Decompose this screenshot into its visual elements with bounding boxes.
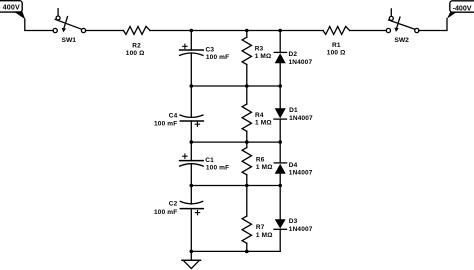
rung4 wire <box>191 185 280 187</box>
wire SW1 to R2 <box>86 30 124 32</box>
svg-text:SW1: SW1 <box>62 37 77 44</box>
resistor R2 <box>123 26 150 34</box>
node +400V flag <box>0 1 25 20</box>
D1 labels <box>289 107 313 122</box>
diode bus: wire rung3 down to D4 <box>279 142 281 163</box>
wire C4 to rung3 <box>190 121 192 142</box>
left bus: wire rung2 down to C4 <box>190 86 192 117</box>
rung2 junction dots <box>190 84 283 88</box>
wire R6 to rung4 <box>246 175 248 186</box>
svg-text:D2: D2 <box>289 51 298 58</box>
svg-text:-400V: -400V <box>453 4 472 12</box>
svg-text:R4: R4 <box>255 112 264 119</box>
svg-text:1N4007: 1N4007 <box>289 115 313 122</box>
svg-text:R3: R3 <box>255 45 264 52</box>
wire R7 to bottom rung <box>246 243 248 251</box>
node A junction dot <box>190 29 194 33</box>
svg-text:1 MΩ: 1 MΩ <box>256 232 273 239</box>
resistor R1 <box>323 26 350 34</box>
diode bus: wire rung2 down to D1 <box>279 86 281 108</box>
wire to ground <box>190 251 192 260</box>
wire SW2 to -400V flag <box>419 19 447 31</box>
middle bus: wire rung4 down to R7 <box>246 186 248 217</box>
C4 labels <box>154 112 178 127</box>
diode D2 <box>274 52 286 63</box>
svg-text:D1: D1 <box>289 107 298 114</box>
C3 labels <box>206 46 230 61</box>
rung3 wire <box>191 141 280 143</box>
diode D3 <box>274 219 287 229</box>
svg-text:100 mF: 100 mF <box>206 165 229 172</box>
capacitor C3 <box>180 44 204 55</box>
wire D1 to rung3 <box>279 119 281 142</box>
wire R1 to SW2 <box>350 30 387 32</box>
svg-text:100 mF: 100 mF <box>206 54 229 61</box>
resistor R7 <box>242 216 251 243</box>
node B junction dot <box>245 29 249 33</box>
svg-text:100 mF: 100 mF <box>154 209 177 216</box>
svg-text:1N4007: 1N4007 <box>289 226 313 233</box>
rung2 wire <box>191 85 280 87</box>
R3 labels <box>255 45 272 60</box>
svg-text:R2: R2 <box>132 43 141 50</box>
diode bus: wire rung4 down to D3 <box>279 186 281 220</box>
wire D2 to rung2 <box>279 63 281 86</box>
node C junction dot <box>278 29 282 33</box>
left bus: wire rung3 down to C1 <box>190 142 192 161</box>
C1 labels <box>205 157 229 172</box>
middle bus: wire node B down to R3 <box>246 31 248 38</box>
svg-text:1 MΩ: 1 MΩ <box>255 53 272 60</box>
svg-text:1N4007: 1N4007 <box>289 170 313 177</box>
svg-text:1 MΩ: 1 MΩ <box>255 120 272 127</box>
svg-text:C4: C4 <box>169 112 178 119</box>
capacitor C2 <box>180 201 203 214</box>
rung3 junction dots <box>190 140 283 144</box>
svg-text:SW2: SW2 <box>394 37 409 44</box>
D4 labels <box>289 162 313 177</box>
wire C3 to rung2 <box>190 53 192 86</box>
C2 labels <box>154 200 178 215</box>
bottom rung wire <box>191 250 280 252</box>
svg-text:C3: C3 <box>206 46 215 53</box>
svg-text:1 MΩ: 1 MΩ <box>256 164 273 171</box>
R1 labels <box>327 42 346 57</box>
ground <box>182 260 201 268</box>
svg-text:D3: D3 <box>289 218 298 225</box>
diode D1 <box>274 108 287 119</box>
capacitor C4 <box>180 115 203 126</box>
switch SW1 <box>53 9 85 33</box>
svg-text:C2: C2 <box>169 200 178 207</box>
wire C2 to bottom rung <box>190 209 192 252</box>
capacitor C1 <box>180 154 204 166</box>
middle bus: wire rung3 down to R6 <box>246 142 248 147</box>
wire R4 to rung3 <box>246 131 248 142</box>
wire from +400V flag down to rail <box>25 19 53 31</box>
wire top rail node B to node C <box>247 30 280 32</box>
svg-text:C1: C1 <box>205 157 214 164</box>
R6 labels <box>256 156 273 171</box>
D2 labels <box>289 51 313 66</box>
svg-text:D4: D4 <box>289 162 298 169</box>
svg-text:R7: R7 <box>256 224 265 231</box>
R2 labels <box>126 43 145 58</box>
svg-text:100 mF: 100 mF <box>154 121 177 128</box>
wire R3 to rung2 <box>246 65 248 87</box>
left bus: wire rung4 down to C2 <box>190 186 192 205</box>
D3 labels <box>289 218 313 233</box>
node -400V flag <box>447 1 474 19</box>
wire top rail node A to node B <box>191 30 247 32</box>
svg-text:1N4007: 1N4007 <box>289 59 313 66</box>
wire D3 to bottom rung <box>279 229 281 251</box>
R4 labels <box>255 112 272 127</box>
bottom rung junction dots <box>190 250 249 254</box>
resistor R6 <box>242 148 251 175</box>
resistor R3 <box>242 37 251 64</box>
wire R2 to node A <box>150 30 191 32</box>
switch SW2 <box>386 9 419 33</box>
svg-text:400V: 400V <box>3 4 20 12</box>
wire D4 to rung4 <box>279 174 281 186</box>
wire top rail node C to R1 <box>280 30 323 32</box>
middle bus: wire rung2 down to R4 <box>246 86 248 104</box>
svg-text:R1: R1 <box>332 42 341 49</box>
resistor R4 <box>242 104 251 131</box>
diode D4 <box>274 163 286 174</box>
left bus: wire node A down to C3 <box>190 31 192 51</box>
diode bus: wire node C down to D2 <box>279 31 281 53</box>
svg-text:100 Ω: 100 Ω <box>327 49 346 56</box>
R7 labels <box>256 224 273 239</box>
svg-text:R6: R6 <box>256 156 265 163</box>
svg-text:100 Ω: 100 Ω <box>126 50 145 57</box>
wire C1 to rung4 <box>190 164 192 186</box>
rung4 junction dots <box>190 184 283 188</box>
